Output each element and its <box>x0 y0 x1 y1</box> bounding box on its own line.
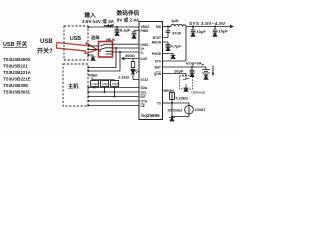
overbars <box>141 72 162 104</box>
resistor box 10k #2 <box>101 81 109 87</box>
svg-text:SCL: SCL <box>141 91 147 95</box>
QON dashed optional box <box>180 76 193 90</box>
svg-text:VBUS: VBUS <box>106 38 116 42</box>
svg-text:2.2kΩ: 2.2kΩ <box>118 75 130 80</box>
REGN cap <box>163 42 171 47</box>
QON wire <box>163 74 187 77</box>
svg-text:30.31kΩ: 30.31kΩ <box>168 108 183 112</box>
svg-text:10μF: 10μF <box>174 69 184 74</box>
svg-text:输入: 输入 <box>84 11 96 19</box>
wire D- to IC <box>113 51 140 53</box>
svg-text:103AT: 103AT <box>195 108 207 112</box>
connector pin nubs <box>87 26 89 106</box>
SYS caps 10uF <box>191 27 196 34</box>
wire VBUS from USB to IC <box>88 26 139 28</box>
Ichg arrowhead <box>212 73 215 76</box>
junction pullup on INT <box>114 96 116 98</box>
svg-text:REGN: REGN <box>164 89 175 93</box>
TS network vertical <box>171 93 173 117</box>
svg-text:USB 开关: USB 开关 <box>3 40 28 48</box>
gnd BAT cap <box>190 73 195 76</box>
svg-text:8.2μF: 8.2μF <box>120 28 131 33</box>
gnd battery <box>204 76 209 79</box>
red block arrow <box>56 43 97 54</box>
gnd PGND <box>171 55 176 58</box>
svg-text:+: + <box>202 63 205 68</box>
ground symbols <box>91 32 218 121</box>
junction pullup on SCL <box>104 91 106 93</box>
thermistor circle <box>185 105 194 114</box>
junction BTST cap on SW rail <box>167 26 169 28</box>
svg-text:bq25896: bq25896 <box>141 113 160 118</box>
host dashed box 主机 <box>63 64 88 106</box>
gnd QON button <box>184 88 189 91</box>
gnd SYS cap1 <box>191 33 196 36</box>
svg-text:REGN: REGN <box>152 41 162 45</box>
svg-text:BAT: BAT <box>155 66 161 70</box>
svg-text:10μF: 10μF <box>219 29 229 34</box>
SYS stub <box>163 60 187 62</box>
SYS vertical <box>185 27 187 62</box>
wire SDA <box>88 87 139 89</box>
svg-text:PGND: PGND <box>152 52 162 56</box>
Ichg arrow <box>212 66 214 75</box>
wire host D+ up <box>88 48 116 68</box>
wire D+ to IC <box>113 47 140 49</box>
wire OTG <box>88 100 139 102</box>
svg-text:USB: USB <box>70 36 81 42</box>
svg-text:CE: CE <box>141 104 145 108</box>
gnd TS network <box>169 118 175 122</box>
svg-text:TS3USB221: TS3USB221 <box>3 64 28 69</box>
svg-text:开关?: 开关? <box>37 47 53 55</box>
svg-text:数码伴侣: 数码伴侣 <box>117 9 140 17</box>
ILIM left arrow <box>121 57 125 60</box>
svg-text:Optional: Optional <box>191 91 205 95</box>
svg-text:选择: 选择 <box>91 34 100 41</box>
capacitor 1uF on VBUS <box>115 27 120 32</box>
battery symbol <box>202 67 210 76</box>
USB connector dashed box <box>64 26 88 60</box>
wire USB D+ <box>88 45 99 47</box>
svg-text:TS3USB3031: TS3USB3031 <box>3 90 31 95</box>
gnd under PMID cap <box>132 35 137 38</box>
junction SYS cap2 <box>214 26 216 28</box>
svg-text:QON: QON <box>154 72 162 76</box>
svg-text:BTST: BTST <box>153 36 161 40</box>
svg-text:PMID: PMID <box>141 29 150 33</box>
switch contacts inside red box <box>100 44 113 54</box>
svg-text:USB: USB <box>40 39 53 45</box>
wire USB gnd <box>88 55 93 57</box>
thermistor branch <box>172 103 189 117</box>
svg-text:Ichg=3A: Ichg=3A <box>186 61 202 66</box>
pullup top rail <box>92 79 115 82</box>
resistor + LED chain to STAT <box>132 59 134 62</box>
junction BAT cap <box>191 66 193 68</box>
svg-text:VREF: VREF <box>88 74 98 78</box>
svg-text:OTG: OTG <box>141 100 148 104</box>
svg-text:5.23kΩ: 5.23kΩ <box>176 97 189 101</box>
SW rail and inductor <box>163 26 172 28</box>
svg-text:SYS 3.5V~4.5V: SYS 3.5V~4.5V <box>189 21 226 26</box>
gnd under 1uF <box>115 32 120 35</box>
LED symbol <box>131 70 139 80</box>
svg-text:TS3USB3000: TS3USB3000 <box>3 57 31 62</box>
svg-text:ILIM: ILIM <box>141 57 148 61</box>
svg-text:SDA: SDA <box>141 86 148 90</box>
wire host D- up <box>88 52 120 71</box>
svg-text:10kΩ: 10kΩ <box>112 82 118 86</box>
SYS right arrow <box>230 25 234 28</box>
svg-text:9V 或 2.4A: 9V 或 2.4A <box>117 17 140 24</box>
node TS <box>171 102 173 104</box>
svg-text:4.7μF: 4.7μF <box>171 44 182 49</box>
svg-text:D-: D- <box>141 51 144 55</box>
svg-text:360Ω: 360Ω <box>125 53 136 58</box>
wire USB D- <box>88 49 99 51</box>
junction pullup on SDA <box>94 87 96 89</box>
red annotation text USB 开关? <box>37 39 53 55</box>
svg-text:TS3USB30E: TS3USB30E <box>3 83 28 88</box>
svg-text:1μF: 1μF <box>107 23 115 28</box>
gnd under USB box <box>91 57 96 60</box>
wire SCL <box>88 91 139 93</box>
BAT wire <box>163 66 207 68</box>
svg-text:SW: SW <box>156 25 161 29</box>
wire DSEL <box>113 43 140 45</box>
red highlight rectangle around switch area <box>99 42 113 58</box>
TS wire <box>163 102 173 104</box>
IC bq25896 <box>139 22 163 120</box>
wire INT <box>88 96 139 98</box>
svg-text:1μH: 1μH <box>171 18 179 23</box>
junction TS network bottom <box>171 116 173 118</box>
pullup drops <box>95 87 115 97</box>
svg-text:10kΩ: 10kΩ <box>102 82 108 86</box>
svg-text:47nF: 47nF <box>172 31 182 36</box>
PGND stub <box>163 54 174 56</box>
junction host D+ on D+ wire <box>115 47 117 49</box>
junction SYS cap1 <box>192 26 194 28</box>
svg-text:STAT: STAT <box>141 78 149 82</box>
left column header: USB switch list <box>3 40 32 95</box>
svg-text:TS: TS <box>157 102 161 106</box>
wire PMID stub <box>132 31 139 36</box>
component value labels <box>88 18 228 112</box>
svg-text:10μF: 10μF <box>197 29 207 34</box>
gnd SYS cap2 <box>213 33 218 36</box>
resistor box 10k #3 <box>111 81 119 87</box>
wire ILIM with arrow <box>122 58 139 60</box>
svg-text:主机: 主机 <box>68 82 79 90</box>
svg-text:10kΩ: 10kΩ <box>92 82 98 86</box>
svg-text:SYS: SYS <box>155 60 161 64</box>
wire CE <box>88 105 139 107</box>
BAT cap 10uF <box>190 67 195 73</box>
resistor box 10k #1 <box>91 81 99 87</box>
svg-text:TS3USB221E: TS3USB221E <box>3 77 31 82</box>
5.23k resistor <box>170 93 175 100</box>
gnd REGN cap <box>166 47 171 50</box>
svg-text:INT: INT <box>141 95 146 99</box>
junction host D- on D- wire <box>119 51 121 53</box>
junction on VBUS at 1uF cap <box>116 26 118 28</box>
LED arrows <box>135 70 139 74</box>
ferrite bead on VBUS <box>104 25 112 27</box>
QON button <box>183 75 190 88</box>
BTST cap <box>163 27 171 38</box>
VREF stub <box>91 78 93 80</box>
svg-text:TS3USB221A: TS3USB221A <box>3 70 32 75</box>
junction dots <box>94 25 235 118</box>
